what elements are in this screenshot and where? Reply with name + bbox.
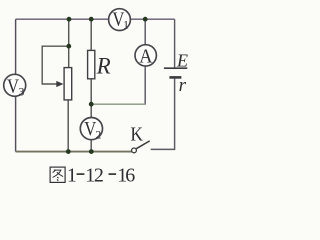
wire middle bus: [91, 103, 146, 105]
wire right top (battery positive lead): [174, 19, 176, 68]
svg-text:6: 6: [125, 164, 135, 186]
caption hanzi tu (drawn): [50, 167, 65, 182]
node top rheostat branch: [67, 17, 72, 22]
wire right bottom (battery negative lead to switch contact): [151, 77, 175, 149]
battery plate long (E positive): [164, 67, 187, 69]
wire resistor R branch upper: [90, 19, 92, 50]
node top resistor branch: [89, 17, 94, 22]
node bottom V2 branch: [89, 149, 94, 154]
node top ammeter branch: [143, 17, 148, 22]
voltmeter V3: [4, 74, 26, 98]
rheostat body: [64, 68, 72, 100]
label r: [179, 75, 187, 96]
rheostat wiper arrowhead: [56, 81, 63, 87]
svg-text:E: E: [176, 51, 188, 71]
svg-text:3: 3: [18, 84, 24, 98]
switch K terminal circle: [132, 148, 137, 153]
node bottom rheostat branch: [66, 149, 71, 154]
wire bottom bus: [16, 151, 132, 153]
switch K lever: [136, 141, 149, 149]
svg-text:A: A: [139, 46, 153, 68]
resistor R body: [88, 50, 95, 78]
svg-text:K: K: [130, 123, 143, 145]
wire rheostat wiper bypass: [42, 46, 68, 84]
voltmeter V1: [109, 9, 131, 32]
battery plate short (negative): [169, 76, 181, 79]
wire rheostat branch upper: [68, 19, 70, 68]
wire top bus: [16, 18, 175, 20]
label K: [130, 123, 143, 145]
label R: [96, 54, 111, 79]
wire rheostat branch lower: [67, 100, 69, 152]
label E: [176, 51, 188, 71]
wire left bus: [15, 19, 17, 151]
svg-text:r: r: [179, 75, 187, 96]
node middle bus left: [89, 102, 94, 107]
svg-text:2: 2: [94, 164, 104, 186]
ammeter A: [135, 45, 156, 68]
wire resistor R branch lower: [90, 79, 92, 104]
wire voltmeter V2 branch: [90, 104, 92, 151]
svg-text:2: 2: [95, 127, 101, 141]
wire ammeter branch: [144, 19, 146, 104]
caption figure number: [67, 164, 135, 186]
svg-text:R: R: [96, 54, 111, 79]
svg-text:1: 1: [67, 164, 77, 186]
node rheostat bypass tap: [66, 44, 71, 49]
voltmeter V2: [80, 118, 102, 142]
svg-text:1: 1: [123, 17, 129, 31]
